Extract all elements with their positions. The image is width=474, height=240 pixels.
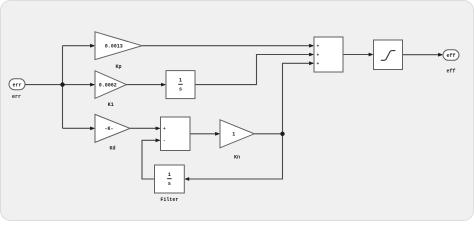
- gain Kd triangle: [95, 114, 130, 142]
- svg-text:1: 1: [232, 132, 235, 138]
- svg-text:1: 1: [168, 172, 171, 178]
- arrowhead into sum U2 input 2: [156, 138, 161, 142]
- svg-text:Filter: Filter: [160, 197, 178, 203]
- svg-text:-K-: -K-: [104, 126, 113, 132]
- wire integrator output to sum U3 input 2: [195, 55, 313, 85]
- wire Kp output to sum U3 input 1: [142, 45, 313, 47]
- svg-text:Kd: Kd: [109, 146, 115, 152]
- input port err: [9, 79, 25, 90]
- svg-text:+: +: [163, 127, 166, 132]
- svg-text:+: +: [317, 45, 320, 50]
- wire junction B down to Filter input: [186, 134, 283, 179]
- svg-text:err: err: [12, 82, 21, 88]
- wire vertical branch at junction A: [62, 46, 64, 129]
- wire err to junction A: [25, 84, 63, 86]
- arrowhead into Kd: [90, 126, 95, 130]
- wire sum U2 output to Kn gain: [190, 133, 219, 135]
- wire sum U3 output to saturation: [343, 54, 373, 56]
- gain Kn triangle: [220, 120, 254, 148]
- svg-text:-: -: [163, 139, 166, 144]
- arrowhead into sum U3 input 2: [309, 53, 314, 57]
- arrowhead into saturation: [369, 53, 374, 57]
- svg-text:0.0062: 0.0062: [99, 82, 117, 88]
- junction B dot: [280, 132, 284, 136]
- wire K1 output to integrator: [127, 84, 166, 86]
- filter integrator block 1/s: [155, 165, 185, 193]
- wire Kd output to sum U2 input 1: [130, 127, 160, 129]
- svg-text:0.0013: 0.0013: [105, 44, 123, 50]
- svg-text:K1: K1: [108, 102, 114, 108]
- integrator block 1/s: [166, 71, 195, 99]
- junction A dot: [60, 82, 64, 86]
- wire branch to Kd gain: [63, 127, 95, 129]
- wire branch to Kp gain: [63, 45, 95, 47]
- svg-text:eff: eff: [446, 53, 455, 59]
- arrowhead into K1: [90, 83, 95, 87]
- wire saturation output to eff port: [403, 54, 443, 56]
- arrowhead into integrator: [161, 83, 166, 87]
- svg-text:s: s: [179, 87, 182, 93]
- arrowhead into sum U3 input 1: [309, 44, 314, 48]
- svg-text:s: s: [168, 181, 171, 187]
- svg-text:eff: eff: [446, 69, 455, 75]
- svg-text:1: 1: [179, 78, 182, 84]
- svg-text:+: +: [317, 53, 320, 58]
- output port eff: [443, 50, 459, 61]
- svg-text:Kn: Kn: [234, 154, 240, 160]
- arrowhead into sum U2 input 1: [156, 126, 161, 130]
- wire Kn output to junction B: [254, 133, 282, 135]
- wire Filter output to sum U2 input 2: [142, 140, 160, 179]
- gain K1 triangle: [95, 71, 127, 99]
- arrowhead into Filter (pointing left): [184, 177, 189, 181]
- wire junction B up to sum U3 input 3: [283, 63, 314, 134]
- arrowhead into Kp: [90, 44, 95, 48]
- wire junction A to K1 gain: [63, 84, 95, 86]
- svg-text:+: +: [317, 62, 320, 67]
- sum U3 block: [314, 37, 343, 72]
- arrowhead into eff port: [438, 53, 443, 57]
- gain Kp triangle: [95, 32, 142, 60]
- saturation block: [374, 40, 403, 70]
- svg-text:Kp: Kp: [115, 64, 121, 70]
- sum U2 block: [161, 117, 191, 151]
- arrowhead into sum U3 input 3: [309, 61, 314, 65]
- arrowhead into Kn: [215, 132, 220, 136]
- svg-text:err: err: [12, 94, 21, 100]
